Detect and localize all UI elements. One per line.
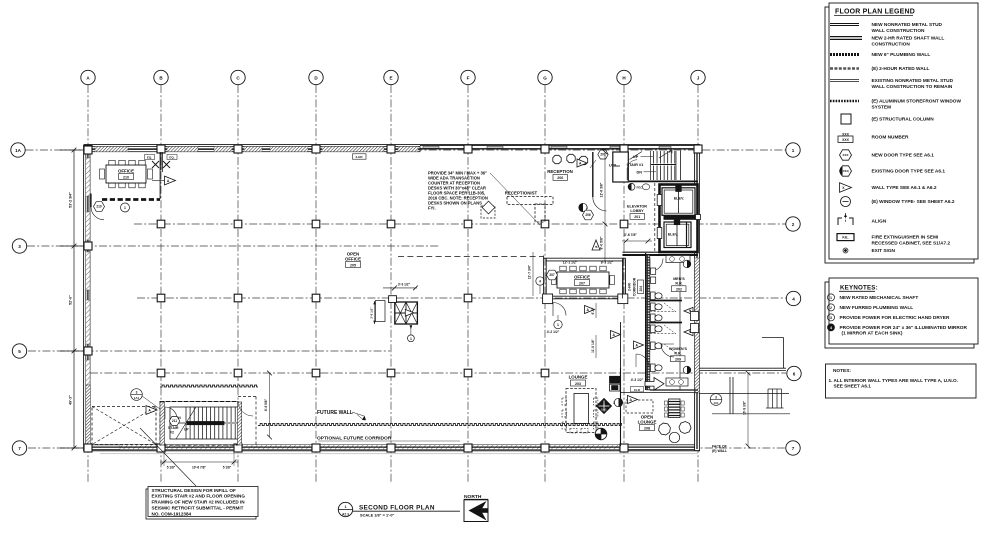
- stair #1: [651, 150, 681, 180]
- svg-text:1. ALL INTERIOR WALL TYPES ARE: 1. ALL INTERIOR WALL TYPES ARE WALL TYPE…: [829, 378, 958, 383]
- door tag 211: [169, 417, 179, 426]
- svg-text:FYI.: FYI.: [428, 206, 436, 211]
- office 210 door: [91, 194, 104, 220]
- grid bubble D: [309, 70, 323, 84]
- svg-text:CONSTRUCTION: CONSTRUCTION: [872, 41, 911, 47]
- svg-text:203: 203: [575, 382, 581, 386]
- svg-text:204: 204: [639, 286, 643, 292]
- svg-text:SECOND FLOOR PLAN: SECOND FLOOR PLAN: [359, 505, 435, 512]
- svg-text:3: 3: [136, 390, 138, 394]
- door tag util hexagon: [598, 150, 608, 159]
- svg-text:CORRIDOR: CORRIDOR: [633, 277, 637, 296]
- column G6: [541, 369, 549, 377]
- lounge 203 table: [562, 389, 598, 433]
- grid bubble 3: [12, 239, 26, 253]
- svg-text:3'-3 1/2": 3'-3 1/2": [398, 283, 411, 287]
- reception west wall: [593, 152, 607, 211]
- grid line 4: [137, 297, 786, 299]
- column E1: [387, 145, 395, 153]
- svg-text:NOTES:: NOTES:: [833, 368, 851, 374]
- svg-text:1A1: 1A1: [134, 396, 140, 400]
- svg-text:OFFICE: OFFICE: [345, 256, 361, 261]
- corridor door arc to lounge: [636, 354, 649, 367]
- svg-text:MEN'S: MEN'S: [673, 277, 685, 281]
- column H1: [620, 145, 628, 153]
- svg-text:DN: DN: [637, 171, 643, 175]
- grid bubble J: [691, 70, 705, 84]
- legend title: [834, 9, 915, 16]
- grid line 1: [26, 149, 787, 151]
- stair2 west wall hatch: [160, 402, 165, 445]
- grid line C: [237, 85, 239, 482]
- 2-HR label top wall: [353, 154, 367, 159]
- exit arrow corridor: [645, 378, 664, 391]
- corridor 204 label: [628, 277, 644, 296]
- dim 11'-7 3/4 vertical: [528, 252, 534, 296]
- svg-text:12'-1 1/2": 12'-1 1/2": [563, 260, 578, 264]
- keynote 3: [828, 314, 950, 321]
- svg-text:3: 3: [613, 401, 615, 405]
- column A-7: [84, 444, 92, 452]
- EQ EQ marks: [145, 152, 178, 170]
- svg-text:3: 3: [830, 316, 832, 320]
- keynotes title: [839, 285, 878, 292]
- svg-text:EQ.: EQ.: [147, 155, 152, 159]
- mens rr door: [650, 258, 663, 272]
- stair entry door diagonal: [627, 152, 642, 181]
- svg-text:202: 202: [676, 288, 682, 292]
- grid bubble H: [617, 70, 631, 84]
- svg-text:FUTURE WALL: FUTURE WALL: [317, 410, 353, 416]
- column H2: [620, 220, 628, 228]
- svg-text:11'-6 1/4": 11'-6 1/4": [591, 339, 595, 353]
- stair 2 labels: [168, 416, 189, 435]
- open office 205 label: [345, 252, 361, 268]
- door tag 206: [583, 210, 594, 220]
- drink fountain keynote: [613, 398, 623, 406]
- office 210 walls: [102, 152, 162, 200]
- column G7: [541, 444, 549, 452]
- corridor top wall at restrooms: [623, 252, 699, 255]
- reception chairs: [553, 154, 588, 164]
- reception label: [547, 169, 573, 180]
- keynote 1 office207: [554, 315, 562, 329]
- column G1: [541, 145, 549, 153]
- svg-text:16'-9 3/8": 16'-9 3/8": [743, 401, 747, 415]
- shaft alignment dashed line: [654, 183, 656, 252]
- column F7: [464, 444, 472, 452]
- svg-text:NEW RATED MECHANICAL SHAFT: NEW RATED MECHANICAL SHAFT: [840, 295, 919, 301]
- svg-text:EXISTING STAIR #2 AND FLOOR OP: EXISTING STAIR #2 AND FLOOR OPENING: [152, 494, 246, 499]
- svg-text:2-HR: 2-HR: [628, 282, 632, 290]
- svg-text:4: 4: [792, 296, 795, 301]
- structural leader: [140, 428, 196, 486]
- svg-text:(XXX): (XXX): [842, 169, 849, 173]
- clr dim: [631, 378, 644, 392]
- bottom exterior wall: [84, 445, 700, 454]
- column F4: [464, 294, 472, 302]
- svg-text:CLR: CLR: [634, 388, 641, 392]
- svg-text:ALIGN: ALIGN: [872, 219, 887, 225]
- column B2: [157, 220, 165, 228]
- grid line A: [87, 85, 89, 482]
- svg-text:EXIT SIGN: EXIT SIGN: [872, 248, 896, 254]
- notes box: [826, 364, 977, 398]
- deck edge lines: [699, 338, 790, 414]
- lounge 203 label: [569, 375, 588, 387]
- column E4 enlarged with X brace: [370, 283, 418, 342]
- svg-text:WOMEN'S: WOMEN'S: [669, 347, 687, 351]
- svg-text:EQ.: EQ.: [169, 155, 174, 159]
- svg-text:LOUNGE: LOUNGE: [569, 375, 588, 380]
- svg-text:(1 MIRROR AT EACH SINK): (1 MIRROR AT EACH SINK): [842, 331, 903, 337]
- svg-text:RECEPTION: RECEPTION: [547, 169, 573, 174]
- keynotes box: [825, 278, 978, 348]
- grid line J: [697, 85, 699, 482]
- keynote 4: [828, 324, 968, 337]
- office 207 door: [553, 303, 566, 317]
- column B1: [157, 145, 165, 153]
- grid bubble 5: [12, 344, 26, 358]
- tag circle 4: [536, 277, 544, 294]
- open lounge striped table: [665, 399, 685, 418]
- grid bubble 6: [787, 366, 801, 380]
- column C2: [234, 220, 242, 228]
- door tag 210: [94, 202, 105, 212]
- dim 8'-6 5/8 right of stair2: [264, 371, 272, 440]
- svg-text:F.E.: F.E.: [842, 236, 848, 240]
- column A-5: [84, 347, 92, 355]
- right exterior wall: [695, 145, 700, 451]
- column D2: [312, 220, 320, 228]
- dim 16-9 right: [743, 371, 751, 449]
- grid bubble C: [231, 70, 245, 84]
- title text: [353, 505, 460, 518]
- svg-text:4: 4: [539, 280, 541, 284]
- restroom block walls: [646, 253, 698, 390]
- symbol circle south lounge: [595, 428, 607, 440]
- svg-text:8'-0 5/8": 8'-0 5/8": [600, 236, 604, 249]
- top exterior wall: [84, 145, 700, 152]
- dim 6'-0 vertical: [591, 303, 596, 318]
- svg-text:STAIR: STAIR: [168, 426, 179, 430]
- keynote circle stair2: [131, 389, 160, 409]
- grid line 7: [28, 447, 786, 449]
- svg-text:11'-7 3/4": 11'-7 3/4": [528, 264, 532, 279]
- svg-text:KEYNOTES:: KEYNOTES:: [840, 285, 878, 292]
- optional future corridor label: [317, 436, 460, 442]
- svg-text:7: 7: [18, 446, 21, 451]
- keynote 1 office: [121, 203, 130, 212]
- svg-text:1: 1: [124, 206, 126, 210]
- svg-text:SEISMIC RETROFIT SUBMITTAL - P: SEISMIC RETROFIT SUBMITTAL - PERMIT: [152, 506, 244, 511]
- keynote circles restrooms: [683, 260, 691, 374]
- grid bubble 7 right: [786, 441, 800, 455]
- grid line 6: [90, 372, 786, 374]
- triangle stair2: [146, 406, 157, 415]
- stair #1 labels: [627, 155, 657, 175]
- column B4: [157, 294, 165, 302]
- svg-text:6'-0": 6'-0": [591, 307, 595, 314]
- svg-text:201: 201: [634, 215, 640, 219]
- dim 11'-6 1/4 vertical: [591, 335, 596, 358]
- toilets: [651, 292, 663, 333]
- wall x620 vertical: [610, 322, 621, 446]
- stair2 east wall hatch: [238, 402, 242, 445]
- svg-text:4'-2 1/2": 4'-2 1/2": [547, 330, 560, 334]
- svg-text:(E) ALUMINUM STOREFRONT WINDOW: (E) ALUMINUM STOREFRONT WINDOW: [872, 99, 962, 105]
- svg-text:ELEV.: ELEV.: [668, 233, 678, 237]
- svg-text:(E) STRUCTURAL COLUMN: (E) STRUCTURAL COLUMN: [872, 117, 935, 123]
- svg-text:209: 209: [675, 358, 681, 362]
- grid bubble 1A: [11, 143, 25, 157]
- womens rr door: [661, 344, 674, 357]
- column C6: [234, 369, 242, 377]
- svg-text:211: 211: [172, 419, 177, 423]
- svg-text:5 1/8": 5 1/8": [223, 466, 232, 470]
- svg-text:FIRE EXTINGUISHER IN SEMI: FIRE EXTINGUISHER IN SEMI: [872, 235, 939, 241]
- svg-text:FLOOR PLAN LEGEND: FLOOR PLAN LEGEND: [835, 9, 915, 16]
- grid line G: [544, 85, 546, 482]
- ADA transaction counter note: [428, 171, 540, 226]
- svg-text:2: 2: [586, 206, 588, 210]
- svg-text:1: 1: [557, 323, 559, 327]
- column A-1A: [84, 146, 92, 154]
- grid line H: [623, 85, 625, 482]
- grid bubble G: [538, 70, 552, 84]
- svg-text:FACE OF: FACE OF: [712, 445, 727, 449]
- svg-text:8'-6 5/8": 8'-6 5/8": [264, 398, 268, 411]
- elevator cab 1: [662, 186, 695, 216]
- svg-text:53'-2 3/4": 53'-2 3/4": [69, 192, 73, 208]
- grid line 3: [27, 245, 440, 247]
- util room walls: [613, 152, 629, 182]
- grid line B: [160, 85, 162, 482]
- svg-text:8'-3 1/2": 8'-3 1/2": [601, 260, 614, 264]
- svg-text:NEW DOOR TYPE SEE A6.1: NEW DOOR TYPE SEE A6.1: [872, 153, 935, 159]
- office 210 conference table: [100, 160, 153, 188]
- svg-text:207: 207: [579, 281, 585, 285]
- svg-text:G: G: [543, 75, 547, 80]
- svg-text:R.R.: R.R.: [674, 352, 681, 356]
- svg-text:4: 4: [830, 326, 832, 330]
- svg-text:(E) WINDOW TYPE- SEE SHEET A6.: (E) WINDOW TYPE- SEE SHEET A6.2: [872, 199, 955, 205]
- svg-text:A2.3: A2.3: [342, 513, 349, 517]
- dim 8'-0 5/8 vertical: [600, 224, 606, 262]
- column E6: [387, 369, 395, 377]
- svg-text:SCALE 1/8" = 1'-0": SCALE 1/8" = 1'-0": [360, 513, 395, 518]
- svg-text:205: 205: [350, 263, 356, 267]
- keynote 1: [828, 294, 919, 301]
- wall niches right wall: [691, 312, 699, 333]
- infill X area: [92, 407, 156, 445]
- svg-text:STAIR #1: STAIR #1: [627, 162, 645, 167]
- svg-text:PROVIDE POWER FOR ELECTRIC HAN: PROVIDE POWER FOR ELECTRIC HAND DRYER: [840, 315, 950, 321]
- svg-text:ELEV.: ELEV.: [674, 197, 684, 201]
- keynote 2 reception: [579, 203, 588, 211]
- svg-text:PROVIDE POWER FOR 24" x 36" IL: PROVIDE POWER FOR 24" x 36" ILLUMINATED …: [840, 325, 968, 331]
- column D7: [312, 444, 320, 452]
- stair south wall: [629, 170, 698, 181]
- svg-text:2: 2: [792, 222, 795, 227]
- open lounge walls: [621, 392, 699, 394]
- open lounge chairs: [659, 422, 691, 443]
- stair 2 enclosure: [160, 402, 238, 446]
- dashed line y256: [398, 256, 543, 258]
- column D1: [312, 145, 320, 153]
- dashed future box: [626, 400, 653, 413]
- svg-text:EXISTING DOOR TYPE SEE A6.1: EXISTING DOOR TYPE SEE A6.1: [872, 169, 946, 175]
- wall type triangle office: [165, 176, 176, 185]
- svg-text:UA1: UA1: [601, 408, 607, 412]
- restroom wall triangles: [585, 306, 595, 314]
- grid line 2: [134, 223, 786, 225]
- stair 2 treads: [170, 407, 238, 439]
- grid bubble F: [461, 70, 475, 84]
- left exterior wall: [84, 145, 91, 451]
- svg-text:UP: UP: [184, 428, 189, 432]
- svg-text:OFFICE: OFFICE: [574, 275, 590, 280]
- column E7: [387, 444, 395, 452]
- open lounge label: [638, 415, 657, 431]
- restroom stall dashed diagonals: [664, 303, 676, 353]
- grid bubble 4: [786, 291, 800, 305]
- svg-text:ELEVATOR: ELEVATOR: [627, 205, 647, 209]
- svg-text:WALL CONSTRUCTION TO REMAIN: WALL CONSTRUCTION TO REMAIN: [872, 84, 953, 90]
- column A-3: [84, 242, 92, 250]
- svg-text:206: 206: [557, 176, 563, 180]
- svg-text:3: 3: [715, 395, 717, 399]
- svg-text:STRUCTURAL DESIGN FOR INFILL O: STRUCTURAL DESIGN FOR INFILL OF: [152, 488, 236, 493]
- office 210 label: [118, 169, 134, 180]
- svg-text:EXISTING NONRATED METAL STUD: EXISTING NONRATED METAL STUD: [872, 78, 954, 84]
- grid bubble B: [154, 70, 168, 84]
- svg-text:1A: 1A: [15, 148, 22, 153]
- grid bubble E: [384, 70, 398, 84]
- svg-text:7: 7: [792, 446, 795, 451]
- svg-text:J: J: [697, 75, 700, 80]
- future wall main: [258, 424, 622, 426]
- svg-text:12'-6 3/8": 12'-6 3/8": [600, 182, 604, 197]
- svg-text:3'-6 1/2": 3'-6 1/2": [370, 307, 374, 319]
- svg-text:1: 1: [344, 505, 346, 509]
- svg-text:NEW 6" PLUMBING WALL: NEW 6" PLUMBING WALL: [872, 52, 931, 58]
- svg-text:210: 210: [96, 205, 102, 209]
- column D4: [312, 294, 320, 302]
- diamond UA1 symbol: [597, 399, 612, 414]
- elevator cab 2: [664, 218, 691, 247]
- svg-text:207: 207: [549, 273, 555, 277]
- svg-text:210: 210: [123, 175, 129, 179]
- mens rr sinks: [666, 256, 690, 263]
- svg-text:#2: #2: [170, 431, 174, 435]
- svg-text:52'-6": 52'-6": [69, 295, 73, 305]
- door tag 207: [547, 270, 558, 280]
- svg-text:E: E: [389, 75, 392, 80]
- svg-text:(E) 2-HOUR RATED WALL: (E) 2-HOUR RATED WALL: [872, 66, 930, 72]
- north arrow: [464, 494, 488, 522]
- svg-text:(E) WALL: (E) WALL: [712, 449, 727, 453]
- svg-text:SEE SHEET A6.1: SEE SHEET A6.1: [834, 383, 872, 388]
- stair2 dims: [160, 450, 238, 470]
- svg-text:NO. COM-1912384: NO. COM-1912384: [152, 511, 192, 516]
- receptionist desks: [481, 197, 553, 223]
- svg-text:RECESSED CABINET, SEE S1/A7.2: RECESSED CABINET, SEE S1/A7.2: [872, 240, 951, 246]
- office 207 dims: [546, 260, 622, 264]
- svg-text:208: 208: [644, 426, 650, 430]
- svg-text:F: F: [467, 75, 470, 80]
- svg-text:RECEPTIONIST: RECEPTIONIST: [505, 191, 538, 196]
- corridor walls: [623, 253, 646, 390]
- keynote circle right deck: [710, 394, 722, 406]
- svg-text:UTIL.: UTIL.: [609, 164, 619, 168]
- womens toilets: [651, 342, 689, 386]
- grid line E: [390, 85, 392, 482]
- future wall left segment: [160, 385, 258, 387]
- office 207 label: [574, 275, 590, 286]
- mens rr label: [672, 277, 687, 292]
- grid line 5: [28, 350, 390, 352]
- face of wall label: [712, 445, 727, 454]
- svg-text:NEW FURRED PLUMBING WALL: NEW FURRED PLUMBING WALL: [840, 305, 914, 311]
- womens rr label: [669, 347, 687, 362]
- svg-text:2-HR: 2-HR: [355, 155, 363, 159]
- office 207 walls: [543, 256, 628, 304]
- elevator lobby label: [627, 205, 647, 220]
- svg-text:DESKS SHOWN ON PLANS: DESKS SHOWN ON PLANS: [428, 201, 482, 206]
- svg-text:WALL CONSTRUCTION: WALL CONSTRUCTION: [872, 28, 926, 34]
- future wall label: [317, 410, 366, 420]
- svg-text:LOBBY: LOBBY: [630, 209, 644, 213]
- column B7: [157, 444, 165, 452]
- svg-text:2: 2: [830, 306, 832, 310]
- svg-text:6: 6: [793, 371, 796, 376]
- svg-text:49'-3": 49'-3": [69, 395, 73, 405]
- svg-text:206: 206: [585, 213, 591, 217]
- column C1: [234, 145, 242, 153]
- svg-text:XXX: XXX: [842, 138, 850, 142]
- keynote 2: [828, 304, 914, 311]
- svg-text:1: 1: [792, 148, 795, 153]
- column J1: [694, 145, 702, 153]
- grid bubble A: [81, 70, 95, 84]
- FEC symbol: [628, 183, 650, 190]
- structural note box: [146, 487, 258, 520]
- svg-text:5: 5: [18, 349, 21, 354]
- grid bubble 1: [786, 143, 800, 157]
- column C4: [234, 294, 242, 302]
- triangle near open lounge: [628, 396, 638, 404]
- svg-text:5 1/8": 5 1/8": [167, 466, 176, 470]
- column A1: [84, 145, 92, 153]
- exterior stair right: [730, 377, 784, 414]
- svg-text:R.R.: R.R.: [675, 282, 682, 286]
- svg-text:OFFICE: OFFICE: [118, 169, 134, 174]
- svg-text:LOUNGE: LOUNGE: [638, 419, 657, 424]
- grid bubble 7 left: [12, 441, 26, 455]
- grid bubble 2: [786, 217, 800, 231]
- svg-text:1: 1: [830, 296, 832, 300]
- office 207 table: [552, 266, 615, 294]
- svg-text:NEW NONRATED METAL STUD: NEW NONRATED METAL STUD: [872, 22, 943, 28]
- svg-text:ROOM NUMBER: ROOM NUMBER: [872, 135, 910, 141]
- svg-text:4'-3 1/2": 4'-3 1/2": [631, 378, 644, 382]
- svg-text:3: 3: [18, 244, 21, 249]
- column B6: [157, 369, 165, 377]
- column D6: [312, 369, 320, 377]
- svg-text:SYSTEM: SYSTEM: [872, 104, 892, 110]
- svg-text:FRAMING OF NEW STAIR #2 INCLUD: FRAMING OF NEW STAIR #2 INCLUDED IN: [152, 500, 246, 505]
